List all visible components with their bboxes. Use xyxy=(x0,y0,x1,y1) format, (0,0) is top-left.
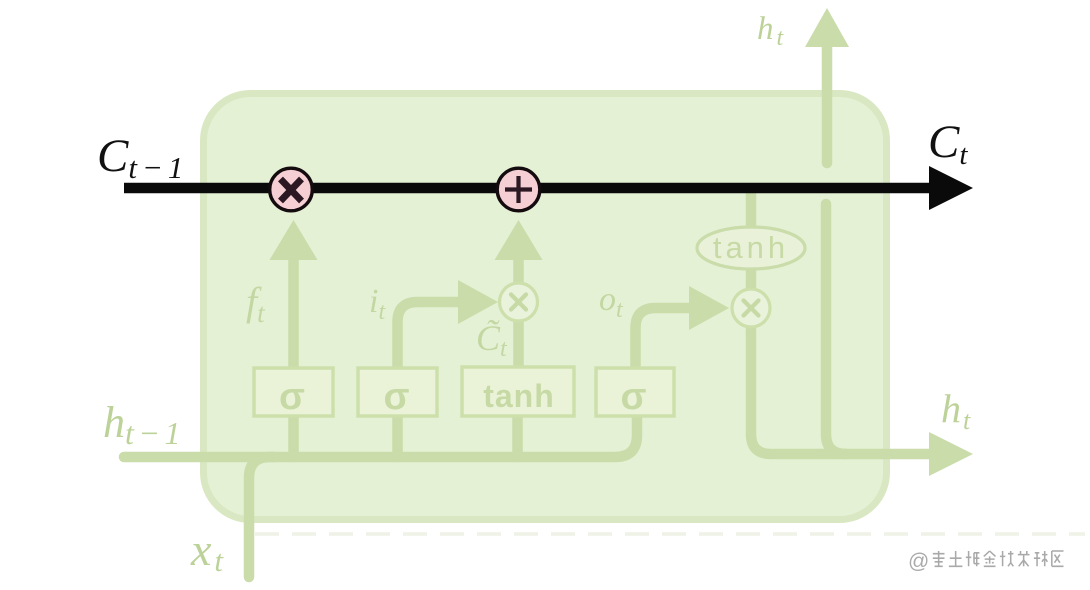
svg-text:σ: σ xyxy=(621,376,647,418)
svg-text:tanh: tanh xyxy=(483,378,555,414)
svg-text:σ: σ xyxy=(384,376,410,418)
svg-text:@: @ xyxy=(908,550,929,573)
svg-text:tanh: tanh xyxy=(713,230,789,265)
svg-text:σ: σ xyxy=(279,376,305,418)
